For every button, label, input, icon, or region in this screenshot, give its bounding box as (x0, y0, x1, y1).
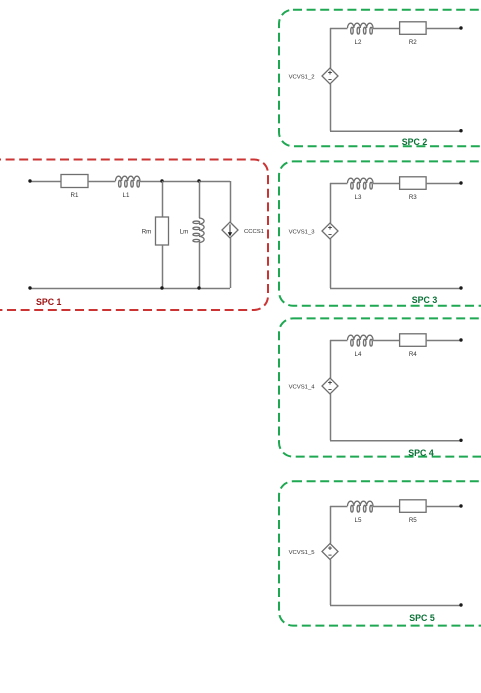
controlled source VCVS1_2 (VCVS diamond) (322, 68, 338, 84)
svg-text:L2: L2 (355, 39, 362, 46)
wire: CCCS1 to bottom rail (230, 238, 232, 288)
wire: top rail corner down to CCCS1 (230, 181, 232, 222)
wire: L4 to R4 (373, 340, 400, 342)
wire: VCVS1_4 to bottom rail (330, 394, 332, 440)
svg-text:R3: R3 (409, 194, 417, 201)
wire: L3 to R3 (373, 183, 400, 185)
SPC 5 region (green) dashed boundary box (279, 481, 481, 625)
wire: VCVS1_3 to bottom rail (330, 239, 332, 288)
wire: SPC2 bottom rail (330, 130, 461, 132)
inductor L2 (348, 23, 374, 28)
inductor Lm (199, 218, 204, 242)
controlled source CCCS1 (CCCS diamond with arrow) (222, 222, 238, 238)
resistor R2 (400, 22, 427, 35)
SPC 3 region (green) dashed boundary box (279, 161, 481, 305)
wire: R2 to output node (426, 28, 461, 30)
wire: SPC5 bottom rail (330, 605, 461, 607)
node: SPC1 bottom-left terminal (28, 286, 31, 289)
node: SPC2 bottom output terminal (459, 129, 462, 132)
SPC 1 region (red) dashed boundary box (0, 160, 268, 311)
wire: R1 to L1 (88, 181, 116, 183)
wire: down to Rm (162, 181, 164, 217)
wire: down to VCVS1_5 (330, 506, 332, 544)
SPC 4 region (green) dashed boundary box (279, 318, 481, 456)
wire: VCVS1_2 to bottom rail (330, 84, 332, 131)
controlled source VCVS1_5 (VCVS diamond) (322, 544, 338, 560)
wire: corner to L3 (330, 183, 348, 185)
svg-text:VCVS1_2: VCVS1_2 (289, 74, 315, 80)
wire: L2 to R2 (373, 28, 400, 30)
wire: Lm to bottom rail (199, 243, 201, 289)
inductor L1 (116, 176, 140, 181)
wire: left node to R1 (30, 181, 61, 183)
wire: down to Lm (199, 181, 201, 218)
svg-text:L5: L5 (355, 517, 362, 524)
node: SPC4 bottom output terminal (459, 439, 462, 442)
controlled source VCVS1_3 (VCVS diamond) (322, 223, 338, 239)
svg-text:VCVS1_4: VCVS1_4 (289, 384, 316, 390)
inductor L3 (348, 178, 374, 183)
node: SPC4 top output terminal (459, 338, 462, 341)
svg-text:SPC 5: SPC 5 (409, 613, 435, 623)
wire: L1 to CCCS1 branch (top) (140, 181, 230, 183)
junction: bottom of Lm branch (197, 286, 200, 289)
wire: R5 to output node (426, 506, 461, 508)
node: SPC5 top output terminal (459, 504, 462, 507)
node: SPC1 top-left terminal (28, 179, 31, 182)
svg-text:Lm: Lm (180, 229, 189, 236)
svg-text:L4: L4 (355, 351, 362, 358)
wire: down to VCVS1_2 (330, 28, 332, 68)
wire: R3 to output node (426, 183, 461, 185)
svg-text:R4: R4 (409, 351, 417, 358)
svg-text:L3: L3 (355, 194, 362, 201)
wire: corner to L5 (330, 506, 348, 508)
resistor R3 (400, 177, 427, 190)
resistor R4 (400, 334, 427, 347)
svg-text:L1: L1 (123, 192, 130, 199)
wire: SPC4 bottom rail (330, 440, 461, 442)
node: SPC3 bottom output terminal (459, 286, 462, 289)
svg-text:CCCS1: CCCS1 (244, 229, 264, 235)
resistor R1 (61, 175, 88, 188)
svg-text:SPC 4: SPC 4 (408, 448, 434, 458)
junction: top of Rm branch (160, 179, 163, 182)
svg-text:R1: R1 (71, 192, 79, 199)
wire: SPC3 bottom rail (330, 288, 461, 290)
wire: down to VCVS1_3 (330, 183, 332, 223)
svg-text:R2: R2 (409, 39, 417, 46)
wire: corner to L2 (330, 28, 348, 30)
wire: L5 to R5 (373, 506, 400, 508)
wire: SPC1 bottom rail (30, 288, 230, 290)
svg-text:SPC 2: SPC 2 (402, 137, 428, 147)
resistor Rm (156, 217, 169, 245)
inductor L4 (348, 335, 374, 340)
controlled source VCVS1_4 (VCVS diamond) (322, 378, 338, 394)
wire: down to VCVS1_4 (330, 340, 332, 378)
SPC 2 region (green) dashed boundary box (279, 10, 481, 147)
svg-text:SPC 1: SPC 1 (36, 297, 62, 307)
node: SPC5 bottom output terminal (459, 603, 462, 606)
svg-text:VCVS1_3: VCVS1_3 (289, 229, 316, 235)
wire: corner to L4 (330, 340, 348, 342)
junction: top of Lm branch (197, 179, 200, 182)
inductor L5 (348, 501, 374, 506)
wire: VCVS1_5 to bottom rail (330, 560, 332, 606)
svg-text:Rm: Rm (142, 229, 152, 236)
node: SPC3 top output terminal (459, 181, 462, 184)
resistor R5 (400, 500, 427, 513)
svg-text:VCVS1_5: VCVS1_5 (289, 550, 316, 556)
node: SPC2 top output terminal (459, 26, 462, 29)
svg-text:R5: R5 (409, 517, 417, 524)
junction: bottom of Rm branch (160, 286, 163, 289)
svg-text:SPC 3: SPC 3 (412, 295, 438, 305)
wire: R4 to output node (426, 340, 461, 342)
wire: Rm to bottom rail (162, 245, 164, 288)
